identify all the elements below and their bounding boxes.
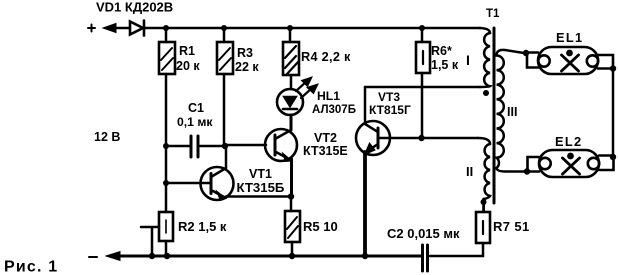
transformer T1 core xyxy=(493,28,496,203)
resistor R3 xyxy=(217,42,233,74)
node EL2 left xyxy=(524,168,530,174)
svg-text:АЛ307Б: АЛ307Б xyxy=(312,104,356,116)
wire winding II to R7 phasing lead xyxy=(482,199,485,212)
svg-text:EL1: EL1 xyxy=(556,30,583,45)
wire VT3 base to winding II xyxy=(421,137,478,140)
svg-text:VD1 КД202В: VD1 КД202В xyxy=(96,0,173,15)
svg-text:R5 10: R5 10 xyxy=(303,219,338,234)
svg-text:VT2: VT2 xyxy=(314,131,337,145)
capacitor C2 xyxy=(423,245,428,271)
node R2 bottom on rail xyxy=(164,253,170,259)
wire C1 right xyxy=(200,145,225,148)
node VT1 base xyxy=(163,180,169,186)
lamp EL1 xyxy=(527,47,613,74)
node R6 top xyxy=(419,25,425,31)
svg-text:EL2: EL2 xyxy=(555,134,582,149)
plus terminal xyxy=(88,25,95,32)
minus terminal xyxy=(89,256,97,258)
svg-text:R6*: R6* xyxy=(431,44,452,58)
svg-text:R2 1,5 к: R2 1,5 к xyxy=(178,219,227,234)
svg-text:С2 0,015 мк: С2 0,015 мк xyxy=(387,226,460,241)
phasing dot winding I xyxy=(483,90,489,96)
wire R7 bottom to C2 xyxy=(430,243,483,256)
svg-text:КТ315Б: КТ315Б xyxy=(237,180,285,195)
wire VT3 emitter to bottom rail xyxy=(363,152,367,256)
wire R2 tap xyxy=(141,227,159,256)
wire VT1 emitter to VT2 emitter xyxy=(226,195,291,198)
node R1 top xyxy=(163,25,169,31)
capacitor C1 xyxy=(191,136,198,157)
svg-text:Рис. 1: Рис. 1 xyxy=(4,259,58,275)
lamp EL2 xyxy=(528,150,614,177)
wire lamp series right side xyxy=(612,69,615,158)
node EL1 left xyxy=(523,50,529,56)
wire R4 top lead xyxy=(289,28,292,42)
svg-text:R1: R1 xyxy=(179,44,195,58)
phasing dot winding II xyxy=(481,199,487,205)
node R5 bottom on rail xyxy=(289,253,295,259)
resistor R6 xyxy=(416,42,430,73)
svg-text:II: II xyxy=(466,164,473,179)
resistor R4 xyxy=(283,42,299,75)
svg-text:R3: R3 xyxy=(237,46,253,60)
svg-text:1,5 к: 1,5 к xyxy=(431,58,459,72)
svg-text:VT3: VT3 xyxy=(378,90,400,104)
wire R1 top lead xyxy=(165,28,168,42)
svg-text:R7 51: R7 51 xyxy=(493,219,530,234)
wire R4 to HL1 xyxy=(290,75,293,89)
resistor R1 xyxy=(159,42,175,74)
svg-text:12 В: 12 В xyxy=(94,130,120,144)
wire C1 left xyxy=(166,145,189,148)
wire bottom rail xyxy=(118,255,421,258)
transformer winding II xyxy=(478,138,490,212)
transistor VT2 xyxy=(265,115,297,196)
node R3 top xyxy=(221,25,227,31)
svg-text:22 к: 22 к xyxy=(235,60,259,74)
wire VT3 collector to winding I xyxy=(365,86,480,89)
svg-text:R4 2,2 к: R4 2,2 к xyxy=(301,50,351,64)
transformer winding III xyxy=(497,50,527,172)
svg-text:0,1 мк: 0,1 мк xyxy=(177,115,213,129)
wire R3 bottom lead xyxy=(223,74,226,145)
wire R3 top lead xyxy=(223,28,226,42)
node R4 top xyxy=(287,25,293,31)
node C1 left xyxy=(163,143,169,149)
node emitters join xyxy=(288,193,294,199)
wire VT2 emitter to R5 xyxy=(290,196,293,211)
transistor VT1 xyxy=(166,146,234,200)
wire R2 bottom lead xyxy=(165,241,168,256)
svg-text:III: III xyxy=(507,105,517,119)
svg-text:20 к: 20 к xyxy=(176,59,200,73)
svg-text:КТ315Е: КТ315Е xyxy=(303,144,348,158)
wire R5 bottom lead xyxy=(291,242,294,256)
resistor R7 xyxy=(476,212,490,243)
node VT3 base xyxy=(418,135,424,141)
svg-text:С1: С1 xyxy=(188,101,204,115)
wire R1 to R2 xyxy=(165,74,168,212)
transistor VT3 xyxy=(356,87,421,155)
svg-text:Т1: Т1 xyxy=(486,8,500,20)
wire HL1 to VT2 collector xyxy=(290,115,293,130)
LED HL1 xyxy=(277,77,318,115)
arrow to minus supply xyxy=(106,252,120,261)
node VT2 base xyxy=(222,143,228,149)
transformer winding I xyxy=(480,28,490,87)
wire R6 top lead xyxy=(421,28,424,42)
svg-text:VT1: VT1 xyxy=(249,167,272,181)
svg-text:КТ815Г: КТ815Г xyxy=(369,103,411,117)
svg-text:I: I xyxy=(466,52,470,68)
node VT3 emitter on rail xyxy=(362,253,368,259)
wire top rail xyxy=(144,27,480,30)
diode VD1 xyxy=(130,22,143,35)
arrow to plus supply xyxy=(114,27,130,30)
node EL2 right xyxy=(610,154,616,160)
wire VT2 base xyxy=(225,144,266,147)
svg-text:HL1: HL1 xyxy=(317,89,340,103)
resistor R2 xyxy=(159,212,173,241)
wire R6 bottom lead xyxy=(421,73,424,137)
resistor R5 xyxy=(285,211,300,242)
node EL1 right xyxy=(610,65,616,71)
node R2 tap on rail xyxy=(149,253,155,259)
